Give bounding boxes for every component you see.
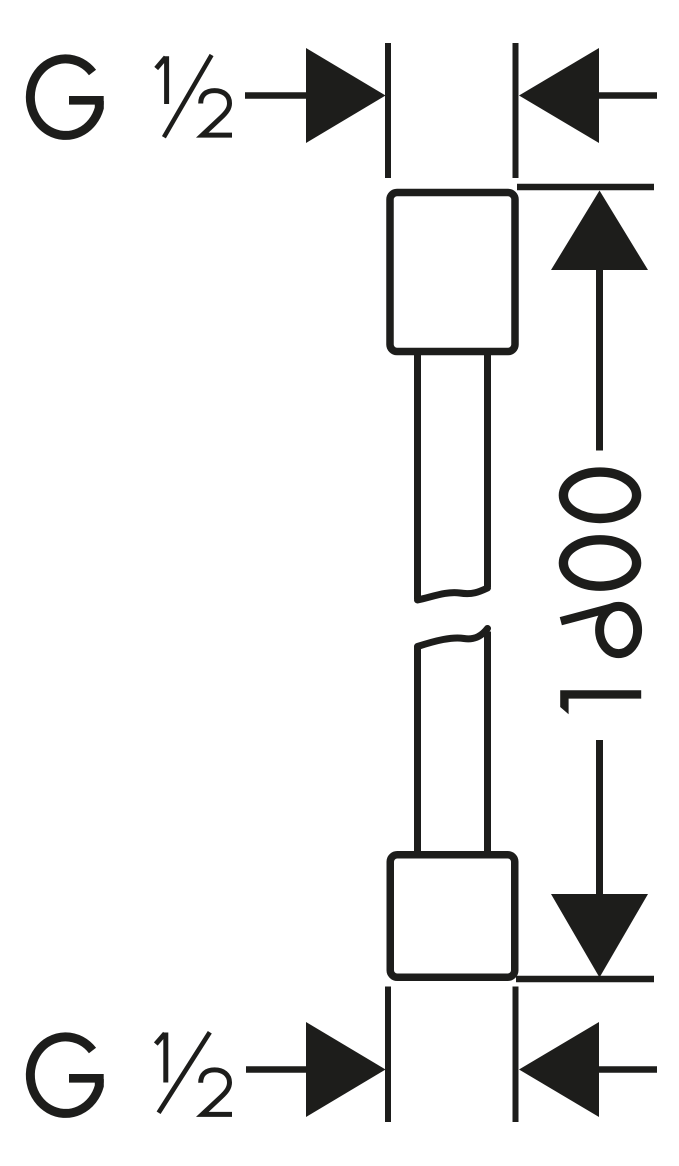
- bottom dimension right arrowhead: [519, 1022, 599, 1117]
- top dimension right shaft: [599, 92, 657, 99]
- label 1/2 denominator (bottom): [201, 1070, 232, 1115]
- label G (top): [30, 59, 103, 136]
- bottom extension line left: [385, 987, 391, 1123]
- top dimension right arrowhead: [519, 48, 599, 143]
- length dimension up arrowhead: [551, 191, 648, 271]
- hose connector nut (bottom): [390, 855, 515, 978]
- length dimension upper shaft: [596, 266, 603, 451]
- top extension line left: [385, 43, 391, 178]
- hose break wave upper: [418, 588, 488, 600]
- bottom extension line right: [513, 987, 519, 1123]
- length dimension top extension line: [517, 184, 654, 191]
- top extension line right: [513, 43, 519, 178]
- label 1600 digit 6 bowl: [600, 606, 638, 653]
- length dimension bottom extension line: [516, 976, 654, 983]
- hose tube upper left edge: [414, 355, 421, 599]
- label G (bottom): [30, 1037, 103, 1114]
- hose tube lower right edge: [484, 632, 491, 853]
- top dimension left shaft: [245, 92, 320, 99]
- label 1/2 numerator (top): [156, 56, 166, 104]
- label 1/2 slash (bottom): [159, 1032, 210, 1113]
- hose connector nut (top): [390, 193, 515, 352]
- bottom dimension left arrowhead: [306, 1022, 386, 1117]
- hose tube upper right edge: [484, 355, 491, 587]
- hose tube lower left edge: [414, 647, 421, 852]
- length dimension down arrowhead: [551, 894, 648, 978]
- length dimension lower shaft: [596, 740, 603, 900]
- top dimension left arrowhead: [306, 48, 386, 143]
- hose break wave lower: [418, 629, 488, 647]
- label 1600 digit 6 stem: [561, 608, 613, 622]
- bottom dimension left shaft: [246, 1066, 320, 1073]
- label 1/2 denominator (top): [201, 91, 232, 136]
- label 1600 digit 1: [560, 690, 641, 714]
- label 1600 digit 0 (second): [563, 540, 636, 586]
- bottom dimension right shaft: [599, 1066, 657, 1073]
- label 1/2 slash (top): [164, 55, 212, 137]
- label 1600 digit 0 (first): [563, 472, 636, 518]
- label 1/2 numerator (bottom): [156, 1033, 166, 1083]
